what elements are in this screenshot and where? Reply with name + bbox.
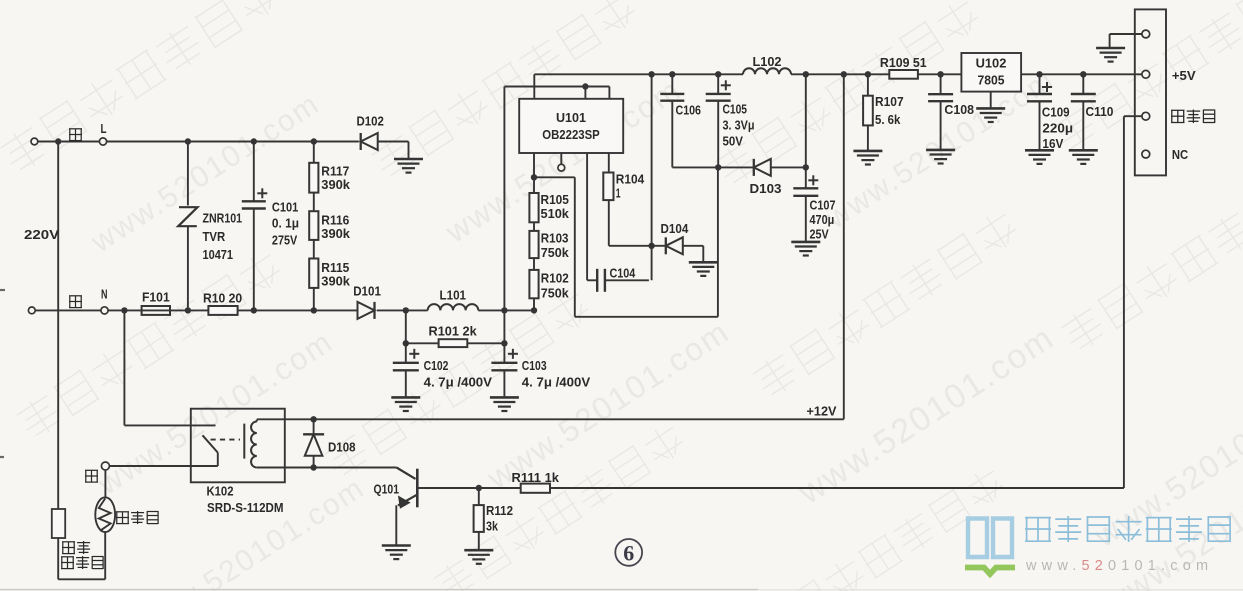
figure number 6 [615,539,642,566]
node +12V riser top [841,71,847,77]
ground R107 [853,151,882,165]
label D108 [328,440,356,455]
input terminal L [31,138,99,145]
svg-text:7805: 7805 [978,73,1006,88]
resistor R104 [603,153,649,246]
label R101 2k [429,323,478,338]
label 红 [69,129,82,141]
svg-text:C102: C102 [424,358,449,373]
wire N to relay [124,310,215,425]
ground D104 [689,262,718,276]
label +5V [1172,68,1196,83]
svg-text:750k: 750k [541,245,569,260]
svg-text:SRD-S-112DM: SRD-S-112DM [207,500,284,515]
resistor R105 [529,177,538,222]
label NC [1172,147,1189,162]
svg-text:390k: 390k [321,274,350,289]
svg-text:C105: C105 [723,102,748,117]
svg-text:220μ: 220μ [1042,120,1073,135]
label +12V [807,404,837,419]
resistor R109 [889,70,961,79]
ic U101 box [519,99,623,153]
fuse F101 [142,306,170,315]
svg-text:C110: C110 [1086,104,1114,119]
node R107 top [865,71,871,77]
svg-text:D103: D103 [750,181,782,196]
wire secondary rail [672,166,754,168]
logo url [1025,558,1213,574]
svg-text:C103: C103 [522,358,547,373]
relay coil [251,420,257,468]
label C103 [522,358,591,390]
svg-text:R103: R103 [541,230,569,245]
resistor R112 [474,488,484,550]
wire DC bus riser [504,87,609,311]
svg-text:+12V: +12V [807,404,837,419]
wire U101 pin to line [584,87,586,99]
wire L102out drop [803,74,809,170]
ground pin1 [1096,48,1125,62]
resistor R117 [309,138,318,192]
ground C108 [926,150,955,164]
svg-text:www.520101.com: www.520101.com [1025,558,1213,574]
capacitor C109 [1027,74,1052,149]
svg-text:R111 1k: R111 1k [512,470,560,485]
label 白 [85,470,98,482]
label 温度 [62,541,90,554]
label C109 [1042,105,1073,151]
svg-text:390k: 390k [321,177,350,192]
label D101 [353,284,381,299]
svg-text:R109 51: R109 51 [880,55,927,70]
label D103 [750,181,782,196]
terminal 白 [101,462,109,497]
relay coil top lead [257,418,285,420]
svg-text:D104: D104 [661,221,689,236]
wire relay to +12V riser [285,418,844,420]
svg-text:R10 20: R10 20 [203,290,242,305]
label C107 [810,198,836,242]
svg-text:D102: D102 [357,113,384,128]
pin 2 circle (+5V) [1142,70,1150,78]
wire C102 drop [403,310,409,346]
relay linkage dashes [211,439,241,441]
relay contact blade [203,435,218,466]
resistor R116 [309,193,318,240]
logo book icon [965,519,1015,575]
svg-text:470μ: 470μ [810,212,835,227]
node C108 top [937,71,943,77]
label R111 1k [512,470,560,485]
svg-text:C104: C104 [610,266,636,281]
node C104 riser top [648,71,654,77]
inductor L102 [743,68,889,74]
node D104 anode [648,243,654,249]
node C105 bottom [715,164,721,170]
svg-text:1: 1 [616,186,621,201]
wire C103 drop [501,310,507,346]
capacitor C104 [587,269,649,292]
capacitor C106 [660,74,684,167]
node C109 top [1036,71,1042,77]
capacitor C102 [393,343,420,397]
wire U101 top rail [534,74,743,99]
wire U102 out [1021,73,1142,75]
svg-text:L101: L101 [440,288,467,303]
node L-heater junction [55,138,61,144]
svg-text:OB2223SP: OB2223SP [542,127,600,142]
label C104 [610,266,636,281]
svg-text:TVR: TVR [203,229,226,244]
label C108 [944,102,974,117]
label C102 [424,358,493,390]
label R105 [541,192,570,221]
node C110 top [1080,71,1086,77]
label L [101,121,107,136]
label R104 [616,172,645,201]
svg-text:220V: 220V [24,227,59,242]
wire pin1 to ground [1110,34,1142,47]
label Q101 [374,481,400,496]
svg-text:U101: U101 [556,110,587,125]
diode D108 [303,419,324,467]
capacitor C105 [706,74,731,167]
label R107 [875,94,904,127]
svg-text:390k: 390k [321,226,350,241]
node D108 bottom [310,464,316,470]
resistor R102 [529,258,538,310]
wire fuse to heater bottom [58,532,105,579]
wire C104-D104 riser [651,74,653,280]
relay K102 box [191,409,285,483]
svg-text:R107: R107 [875,94,904,109]
svg-text:C107: C107 [810,198,836,213]
resistor R101 [406,339,505,347]
svg-text:L: L [101,121,107,136]
capacitor C110 [1071,74,1096,149]
label F101 [142,290,170,305]
diode D103 [754,159,806,176]
svg-text:3k: 3k [486,519,498,534]
connector block [1135,9,1166,175]
transistor Q101 [396,468,417,545]
label R103 [541,230,569,260]
label 发热盘 [116,511,158,524]
label 220V [24,227,59,242]
svg-text:25V: 25V [810,227,829,242]
pin 3 circle (relay) [1142,112,1150,120]
svg-text:4. 7μ /400V: 4. 7μ /400V [522,374,591,389]
label N [101,287,108,302]
label R102 [541,271,569,301]
pin 4 circle (NC) [1142,150,1150,158]
svg-text:275V: 275V [272,232,298,247]
varistor ZNR101 [178,138,197,313]
logo text 家电维修资料网 [1025,516,1230,542]
resistor R10 [208,306,356,315]
node R112 junction [476,485,482,491]
capacitor C101 [242,138,267,313]
label D104 [661,221,689,236]
svg-text:L102: L102 [753,54,782,69]
resistor R107 [863,74,873,150]
svg-text:C108: C108 [944,102,974,117]
svg-text:10471: 10471 [203,247,234,262]
label 保险丝 [61,556,103,569]
node C106 top [669,71,675,77]
wire U101 fb pin [531,153,537,181]
svg-text:C101: C101 [272,199,299,214]
svg-text:F101: F101 [142,290,170,305]
ground Q101 emitter [382,546,411,560]
svg-text:C106: C106 [676,103,702,118]
label K102 [207,484,234,499]
svg-text:+5V: +5V [1172,68,1196,83]
svg-text:ZNR101: ZNR101 [203,211,243,226]
ground C110 [1069,150,1098,164]
label R115 [321,260,350,289]
pin 1 circle [1142,30,1150,38]
resistor R103 [529,222,538,258]
node R102 bottom [531,307,537,313]
node U101 vcc [582,83,588,89]
svg-text:0. 1μ: 0. 1μ [272,216,299,231]
label R10 20 [203,290,242,305]
diode D104 [652,237,704,261]
svg-text:C109: C109 [1042,105,1070,120]
pin U101 open circle [558,153,565,171]
svg-text:3. 3Vμ: 3. 3Vμ [723,118,755,133]
label C110 [1086,104,1114,119]
node DC bus [501,307,507,313]
label U101 [542,110,600,142]
label 继电器 [1171,110,1215,124]
resistor R111 [521,484,550,493]
label R116 [321,213,350,242]
svg-text:750k: 750k [541,286,569,301]
svg-text:510k: 510k [541,206,570,221]
label U102 7805 [976,56,1007,88]
diode D102 [361,133,409,159]
label L102 [753,54,782,69]
ground R112 [464,550,493,564]
ground D102 [394,159,423,173]
capacitor C108 [928,74,953,149]
svg-text:50V: 50V [723,134,744,149]
ground C107 [791,242,820,256]
relay coil bottom lead [257,467,285,469]
wire feedback loop [534,167,718,316]
wire 白 to relay contact [109,465,217,467]
heater 发热盘 [95,497,115,532]
svg-text:R112: R112 [486,503,513,518]
wire Q101 base [417,487,520,489]
ic U102 box [961,53,1021,92]
svg-text:R102: R102 [541,271,569,286]
svg-text:6: 6 [623,541,634,566]
label SRD-S-112DM [207,500,284,515]
connector circle L [99,138,358,145]
inductor L101 [428,304,534,310]
capacitor C103 [491,343,518,397]
node D108 top [310,416,316,422]
ground C109 [1025,150,1054,164]
label R112 [486,503,513,534]
svg-text:R101 2k: R101 2k [429,323,478,338]
label C101 [272,199,299,247]
svg-text:16V: 16V [1042,136,1063,151]
fuse 温度保险丝 [52,509,65,579]
svg-text:R105: R105 [541,192,570,207]
label 蓝 [69,296,82,308]
node D101 out [403,307,409,313]
wire heater drop (crosses N rail) [57,142,59,510]
node N-relay junction [121,307,127,313]
label R117 [321,164,350,193]
svg-text:K102: K102 [207,484,234,499]
scan artifact line [0,290,1243,590]
svg-text:5. 6k: 5. 6k [875,112,901,127]
node L102 out [803,71,809,77]
resistor R115 [309,240,318,314]
ground C102 [391,397,420,411]
label L101 [440,288,467,303]
svg-text:D101: D101 [353,284,381,299]
svg-text:U102: U102 [976,56,1007,71]
svg-text:R104: R104 [616,172,645,187]
svg-text:D108: D108 [328,440,356,455]
node C105 top [715,71,721,77]
diode D101 [358,302,428,319]
label R109 51 [880,55,927,70]
capacitor C107 [793,167,818,241]
label C105 [723,102,755,149]
wire +12V riser [843,74,845,419]
svg-text:N: N [101,287,108,302]
label ZNR101 [203,211,243,262]
label D102 [357,113,384,128]
svg-text:4. 7μ /400V: 4. 7μ /400V [424,374,493,389]
ground U102 [976,108,1005,122]
svg-text:Q101: Q101 [374,481,400,496]
svg-text:NC: NC [1172,147,1189,162]
relay armature bar [243,424,245,459]
ground C103 [490,397,519,411]
input terminal N [28,307,101,314]
wire R111 to connector [550,116,1142,488]
connector circle N [101,307,208,314]
wire U102 gnd [990,92,992,108]
wire U101 cs pin [586,153,588,280]
wire relay coil bottom to Q101 [285,467,397,469]
label C106 [676,103,702,118]
